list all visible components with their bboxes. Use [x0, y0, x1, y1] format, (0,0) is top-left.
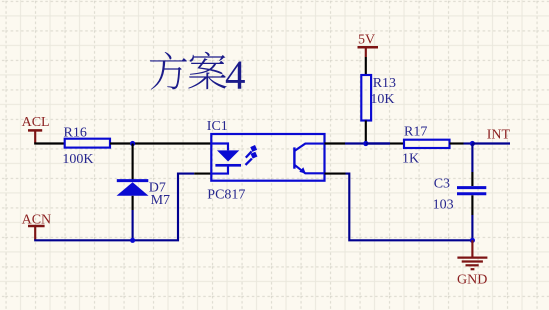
svg-text:IC1: IC1 — [207, 119, 228, 134]
svg-text:R16: R16 — [64, 125, 87, 140]
resistor R13 — [361, 75, 396, 121]
optocoupler IC1 PC817 — [207, 119, 325, 202]
wire ACL to R16 — [34, 142, 64, 144]
phototransistor — [293, 147, 295, 168]
wire pin2 stub — [194, 173, 211, 175]
light arrows — [246, 151, 252, 157]
wire emitter to ground rail — [346, 174, 473, 241]
diode D7 — [117, 181, 171, 208]
svg-text:R13: R13 — [373, 76, 396, 91]
wire pin3 stub — [325, 173, 346, 175]
power 5V — [358, 33, 379, 58]
node E junction — [470, 238, 475, 243]
node A junction — [130, 141, 135, 146]
svg-text:100K: 100K — [62, 152, 93, 167]
wire node A down to D7 — [132, 144, 134, 181]
wire 5V to R13 — [365, 57, 367, 75]
svg-text:GND: GND — [457, 272, 487, 287]
svg-text:M7: M7 — [151, 193, 170, 208]
svg-text:INT: INT — [487, 128, 511, 143]
svg-text:103: 103 — [433, 197, 454, 212]
svg-text:R17: R17 — [404, 125, 427, 140]
svg-text:5V: 5V — [358, 33, 375, 48]
wire C3 down — [471, 195, 473, 215]
port ACL — [22, 115, 50, 144]
wire R16 to node A — [110, 142, 211, 144]
title 方案4 — [150, 52, 246, 98]
svg-text:C3: C3 — [434, 176, 450, 191]
resistor R16 — [62, 125, 110, 167]
wire node C to R17 — [366, 142, 390, 144]
node C junction — [363, 141, 368, 146]
node D junction — [470, 141, 475, 146]
ground — [457, 240, 487, 287]
LED inside — [212, 144, 228, 151]
resistor R17 — [402, 125, 450, 167]
wire node D to INT — [472, 142, 510, 144]
svg-text:ACL: ACL — [22, 115, 50, 130]
capacitor C3 — [433, 176, 487, 212]
svg-text:PC817: PC817 — [207, 187, 245, 202]
wire R13 to node C — [365, 121, 367, 144]
svg-text:1K: 1K — [402, 152, 419, 167]
wire pin4 stub — [325, 142, 346, 144]
svg-text:10K: 10K — [370, 92, 394, 107]
wire ACN rail — [34, 174, 194, 241]
node B junction — [130, 238, 135, 243]
wire D7 down — [132, 196, 134, 210]
svg-text:4: 4 — [225, 52, 246, 98]
wire node D down to C3 — [471, 144, 473, 173]
wire R17 to node D — [450, 142, 464, 144]
port ACN — [22, 212, 52, 240]
